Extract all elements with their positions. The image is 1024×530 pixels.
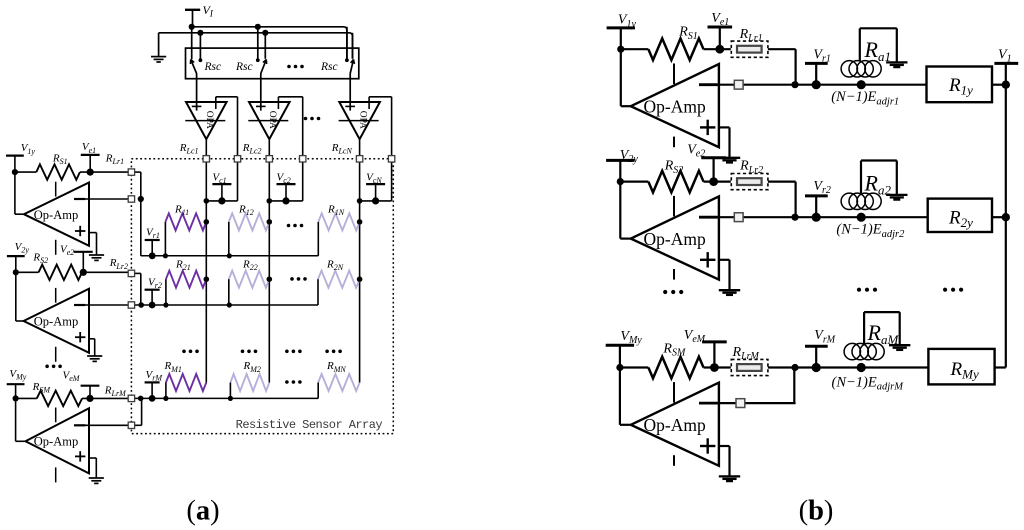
svg-text:(N−1)Eadjr2: (N−1)Eadjr2: [836, 222, 905, 240]
svg-text:V2y: V2y: [620, 148, 639, 165]
svg-text:RM2: RM2: [243, 360, 261, 374]
svg-text:OPA: OPA: [267, 111, 277, 129]
svg-text:Ve2: Ve2: [60, 244, 74, 258]
svg-text:Ra2: Ra2: [864, 170, 892, 197]
svg-text:Op-Amp: Op-Amp: [643, 415, 705, 435]
svg-text:Op-Amp: Op-Amp: [643, 97, 705, 117]
svg-text:RMy: RMy: [950, 359, 979, 382]
svg-text:R11: R11: [174, 204, 189, 218]
svg-text:VcN: VcN: [366, 172, 382, 186]
svg-text:R1N: R1N: [327, 204, 345, 218]
svg-text:RLr1: RLr1: [105, 153, 124, 167]
svg-text:RSM: RSM: [662, 341, 686, 358]
svg-text:RLr1: RLr1: [739, 27, 763, 44]
svg-text:RS1: RS1: [678, 25, 698, 42]
svg-text:RLcN: RLcN: [331, 142, 353, 156]
svg-text:VI: VI: [203, 3, 214, 19]
svg-text:RM1: RM1: [164, 360, 182, 374]
svg-text:Rsc: Rsc: [235, 61, 253, 73]
svg-text:(b): (b): [799, 496, 834, 527]
svg-text:OPA: OPA: [357, 111, 367, 129]
svg-text:RS1: RS1: [52, 152, 68, 166]
svg-text:R1y: R1y: [948, 75, 973, 98]
svg-text:Vr2: Vr2: [148, 276, 162, 290]
svg-text:RSM: RSM: [32, 381, 52, 395]
svg-text:R12: R12: [238, 204, 254, 218]
svg-text:Resistive Sensor Array: Resistive Sensor Array: [236, 418, 383, 432]
svg-text:RLr2: RLr2: [109, 257, 128, 271]
svg-text:VrM: VrM: [146, 369, 164, 383]
svg-text:OPA: OPA: [204, 111, 214, 129]
svg-text:RS2: RS2: [32, 251, 48, 265]
svg-text:RLc1: RLc1: [179, 142, 199, 156]
svg-text:VrM: VrM: [814, 328, 835, 345]
svg-text:Ve1: Ve1: [711, 11, 729, 28]
svg-text:RaM: RaM: [867, 320, 900, 347]
svg-text:Ve1: Ve1: [82, 141, 96, 155]
svg-text:VeM: VeM: [684, 328, 706, 345]
svg-text:VMy: VMy: [9, 368, 26, 382]
svg-text:Rsc: Rsc: [320, 61, 338, 73]
svg-text:Vc1: Vc1: [212, 172, 226, 186]
svg-text:R22: R22: [242, 259, 258, 273]
svg-text:Op-Amp: Op-Amp: [34, 435, 78, 449]
svg-text:VMy: VMy: [620, 329, 642, 346]
svg-text:Op-Amp: Op-Amp: [34, 314, 78, 328]
svg-text:(N−1)Eadjr1: (N−1)Eadjr1: [831, 89, 899, 107]
svg-text:RLrM: RLrM: [104, 385, 127, 399]
svg-text:Ve2: Ve2: [687, 142, 705, 159]
svg-text:(N−1)EadjrM: (N−1)EadjrM: [832, 374, 905, 392]
svg-text:RLc2: RLc2: [242, 142, 262, 156]
svg-text:V1y: V1y: [618, 13, 637, 30]
svg-text:Vr1: Vr1: [813, 47, 830, 64]
svg-text:Vr1: Vr1: [146, 226, 160, 240]
svg-text:V1y: V1y: [21, 142, 36, 156]
svg-text:V2y: V2y: [15, 241, 30, 255]
svg-text:VeM: VeM: [63, 369, 81, 383]
svg-text:(a): (a): [186, 496, 219, 527]
svg-text:R2N: R2N: [326, 259, 344, 273]
svg-text:Vc2: Vc2: [277, 172, 291, 186]
svg-text:RLr2: RLr2: [739, 159, 763, 176]
svg-text:Ra1: Ra1: [864, 37, 891, 64]
svg-text:RMN: RMN: [326, 360, 346, 374]
svg-text:R2y: R2y: [948, 207, 973, 230]
svg-text:RLrM: RLrM: [732, 345, 760, 362]
svg-text:RS2: RS2: [664, 159, 684, 176]
svg-text:Rsc: Rsc: [204, 61, 222, 73]
svg-text:Op-Amp: Op-Amp: [34, 208, 78, 222]
svg-text:Op-Amp: Op-Amp: [643, 229, 705, 249]
svg-text:Vr2: Vr2: [813, 179, 830, 196]
svg-text:R21: R21: [175, 259, 191, 273]
